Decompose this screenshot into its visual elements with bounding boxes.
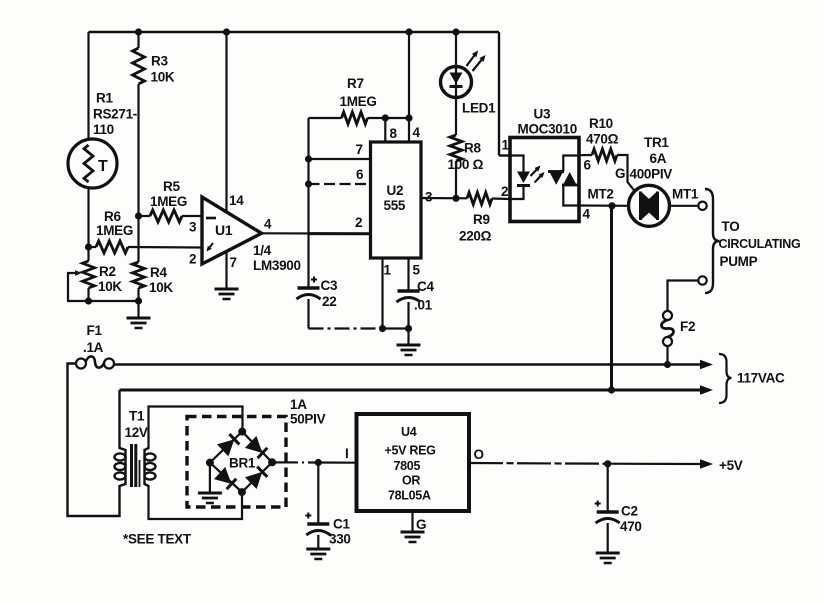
wire F1 left — [68, 364, 120, 517]
svg-text:470Ω: 470Ω — [586, 132, 619, 147]
wire top +V rail — [89, 32, 511, 156]
bridge diode bottom-right — [245, 467, 267, 489]
ground U4 — [401, 532, 425, 542]
label F1 — [83, 323, 104, 355]
wire R4 to ground — [137, 301, 139, 318]
capacitor C4 — [397, 291, 421, 329]
svg-text:117VAC: 117VAC — [737, 371, 785, 386]
label U3 pin2 — [501, 184, 508, 199]
node U2 pin7 junction — [305, 155, 312, 162]
capacitor C3 — [297, 234, 321, 329]
label TR1 — [630, 135, 673, 182]
wire U2 ground stub — [407, 329, 409, 346]
transformer T1 secondary — [145, 448, 156, 486]
svg-text:OR: OR — [402, 474, 420, 488]
U3 internal triac — [548, 156, 579, 206]
svg-text:T1: T1 — [129, 409, 145, 424]
svg-text:C2: C2 — [621, 504, 638, 519]
node top rail junction U1 pin14 — [223, 28, 230, 35]
svg-text:TR1: TR1 — [644, 135, 669, 150]
IC U2 555 — [371, 142, 422, 258]
svg-text:6: 6 — [356, 167, 364, 182]
svg-text:10K: 10K — [98, 279, 122, 294]
label LED1 — [462, 101, 496, 116]
wire R5 node down to R4 — [137, 216, 139, 262]
fuse F2 — [662, 311, 674, 365]
bridge diode top-right — [245, 436, 267, 458]
wire U3 pin6 to R10 — [579, 154, 592, 156]
svg-text:110: 110 — [93, 122, 114, 137]
wire U4 ground stub — [411, 511, 413, 532]
node R2 bottom — [85, 297, 92, 304]
resistor R4 — [133, 262, 145, 288]
label U1 pin2 — [189, 252, 196, 267]
label R7 — [340, 76, 377, 109]
terminal pump bottom — [698, 276, 706, 284]
node R7 pin4 junction — [405, 114, 412, 121]
wire MT2 drop — [610, 206, 613, 390]
label U2 pin3 — [425, 190, 433, 205]
wire BR1 output — [272, 461, 356, 464]
label U2 pin1 — [384, 263, 392, 278]
svg-text:R2: R2 — [99, 264, 116, 279]
node BR1 right — [268, 458, 276, 466]
svg-text:50PIV: 50PIV — [290, 412, 326, 427]
label C1 — [329, 517, 351, 547]
transformer T1 core — [132, 444, 140, 487]
node U2 pin1 bottom — [379, 325, 386, 332]
U3 internal LED — [510, 156, 530, 200]
ground U1 pin7 — [215, 289, 239, 299]
svg-text:MT1: MT1 — [672, 187, 699, 202]
thermistor R1 — [68, 139, 117, 188]
resistor R2 potentiometer — [69, 261, 95, 288]
wire U2 pin7 — [309, 158, 371, 160]
svg-text:4: 4 — [583, 207, 591, 222]
svg-text:U1: U1 — [215, 222, 233, 238]
wire R1 bottom — [87, 188, 89, 247]
label R1 — [93, 91, 137, 138]
svg-text:4: 4 — [413, 125, 421, 140]
label R9 — [459, 212, 492, 244]
node top rail junction LED1 — [452, 28, 459, 35]
resistor R6 — [96, 241, 128, 253]
label U4 pin I — [345, 446, 348, 461]
wire U1 pin7 — [225, 251, 227, 289]
svg-text:7: 7 — [356, 142, 363, 157]
capacitor C2 — [595, 464, 620, 553]
svg-text:1A: 1A — [290, 397, 307, 412]
ground under R4 — [127, 318, 151, 328]
svg-text:1/4: 1/4 — [253, 243, 272, 258]
node MT2 rail junction — [608, 386, 615, 393]
wire R2 top stub — [87, 247, 89, 261]
label U3 pin4 — [583, 207, 591, 222]
wire R4 bottom — [137, 288, 139, 301]
svg-text:7805: 7805 — [394, 459, 421, 473]
resistor R10 — [592, 149, 617, 161]
ground C2 — [596, 553, 620, 563]
transformer T1 primary — [115, 448, 126, 486]
label T1 — [125, 409, 148, 441]
node R5 junction — [135, 212, 142, 219]
dashed box BR1 — [187, 417, 286, 508]
wire U1 output bold segment — [309, 232, 371, 235]
label U1 1/4 LM3900 — [253, 243, 301, 273]
svg-text:R10: R10 — [589, 116, 613, 131]
svg-text:U3: U3 — [534, 107, 551, 122]
wire U4 output — [469, 463, 701, 464]
resistor R7 — [309, 112, 410, 124]
wire 117VAC rail 2 — [120, 389, 702, 392]
wire U2 pin6 dashed — [309, 183, 371, 185]
wire U2 pin1 drop — [381, 258, 383, 329]
node R8 pin3 junction — [452, 195, 459, 202]
svg-text:+5V: +5V — [719, 458, 743, 473]
wire U1 output — [262, 232, 371, 235]
svg-text:6A: 6A — [650, 151, 667, 166]
wire LED1 top — [455, 32, 457, 67]
label U2 pin7 — [356, 142, 363, 157]
resistor R5 — [150, 210, 182, 222]
wire R8 bottom — [455, 161, 457, 198]
svg-text:TO: TO — [722, 219, 740, 234]
triac TR1 — [629, 185, 670, 226]
svg-text:LM3900: LM3900 — [253, 258, 301, 273]
label U1 pin4 — [264, 217, 272, 232]
label U1 pin7 — [230, 255, 237, 270]
svg-text:F2: F2 — [680, 319, 695, 334]
svg-text:R7: R7 — [347, 76, 364, 91]
wire U2 pin5 drop — [407, 258, 409, 291]
label F2 — [680, 319, 695, 334]
resistor R9 — [467, 192, 492, 204]
svg-text:2: 2 — [355, 215, 362, 230]
capacitor C1 — [305, 463, 330, 550]
label R3 — [151, 54, 175, 85]
wire secondary top — [149, 407, 243, 450]
label 1A 50PIV — [290, 397, 326, 427]
node top rail junction U2 pin4 — [405, 28, 412, 35]
resistor R8 — [450, 135, 462, 161]
ground U2 — [397, 345, 421, 355]
wire U3 pin4 to MT2 — [579, 204, 629, 207]
node U2 pin6 junction — [305, 180, 312, 187]
label U2 pin8 — [390, 126, 398, 141]
svg-text:10K: 10K — [149, 280, 173, 295]
bridge diode bottom-left — [214, 467, 236, 489]
svg-text:R5: R5 — [163, 179, 180, 194]
label R6 — [96, 209, 133, 238]
svg-text:3: 3 — [189, 220, 197, 235]
svg-text:220Ω: 220Ω — [459, 229, 492, 244]
label U3 pin6 — [584, 158, 592, 173]
ground BR1 — [198, 493, 222, 503]
bridge BR1 frame — [210, 432, 272, 493]
svg-text:T: T — [98, 158, 108, 175]
svg-text:C4: C4 — [417, 279, 434, 294]
svg-text:78L05A: 78L05A — [388, 489, 431, 503]
U3 emission arrows — [531, 166, 545, 183]
node R7 pin8 junction — [382, 114, 389, 121]
label 117VAC — [737, 371, 785, 386]
svg-text:330: 330 — [329, 532, 351, 547]
arrow 117VAC rail 2 — [700, 385, 713, 395]
LED LED1 — [441, 51, 486, 98]
brace circulating pump — [705, 189, 720, 293]
wire R10 to gate — [617, 155, 635, 192]
svg-text:I: I — [345, 446, 348, 461]
wire secondary bottom — [149, 485, 243, 519]
label U4 pin O — [474, 447, 484, 462]
svg-text:O: O — [474, 447, 484, 462]
label BR1 — [229, 456, 256, 471]
optocoupler U3 MOC3010 box — [510, 138, 579, 222]
svg-text:U2: U2 — [387, 183, 404, 198]
svg-text:7: 7 — [230, 255, 237, 270]
svg-text:F1: F1 — [87, 323, 103, 338]
svg-text:1MEG: 1MEG — [96, 223, 133, 238]
label U3 pin1 — [502, 138, 510, 153]
label TR1 gate G — [615, 166, 625, 181]
wire R5 to U1 pin3 — [182, 215, 202, 217]
bridge diode top-left — [217, 434, 239, 456]
wire BR1 ground stub — [209, 463, 211, 493]
svg-text:1: 1 — [502, 138, 510, 153]
svg-text:LED1: LED1 — [462, 101, 496, 116]
IC U4 regulator — [357, 414, 470, 511]
wire U2 pin3 — [421, 197, 467, 200]
svg-text:R6: R6 — [104, 209, 121, 224]
wire R2 wiper loop — [68, 273, 89, 301]
label R5 — [150, 179, 187, 209]
svg-text:14: 14 — [229, 193, 244, 208]
svg-text:G: G — [615, 166, 625, 181]
svg-text:1MEG: 1MEG — [150, 194, 187, 209]
label U2 pin5 — [413, 263, 421, 278]
svg-text:MOC3010: MOC3010 — [518, 122, 577, 137]
ground C1 — [306, 549, 330, 559]
label MT2 — [588, 187, 614, 202]
wire R1 branch top — [87, 32, 89, 139]
svg-text:555: 555 — [384, 198, 406, 213]
node C2 junction — [604, 460, 611, 467]
svg-text:10K: 10K — [151, 70, 175, 85]
svg-text:22: 22 — [322, 294, 336, 309]
wire U2 pin4 drop — [408, 32, 410, 142]
svg-text:470: 470 — [620, 519, 642, 534]
svg-text:5: 5 — [413, 263, 421, 278]
resistor R3 — [133, 48, 145, 84]
fuse F1 — [76, 356, 114, 368]
svg-text:U4: U4 — [401, 425, 417, 439]
label R10 — [586, 116, 619, 147]
svg-text:MT2: MT2 — [588, 187, 614, 202]
svg-text:+5V REG: +5V REG — [385, 444, 436, 458]
label R4 — [149, 265, 173, 295]
label C2 — [620, 504, 642, 535]
terminal pump top — [698, 202, 706, 210]
label U4 pin G — [416, 517, 426, 532]
svg-text:BR1: BR1 — [229, 456, 256, 471]
svg-text:R1: R1 — [96, 91, 113, 106]
label U3 — [518, 107, 577, 137]
svg-text:G: G — [416, 517, 426, 532]
label U2 pin4 top — [413, 125, 421, 140]
label U1 pin3 — [189, 220, 197, 235]
svg-text:R9: R9 — [473, 212, 490, 227]
wire R2 bottom stub — [87, 288, 89, 301]
label R2 — [98, 264, 122, 294]
svg-text:2: 2 — [189, 252, 196, 267]
svg-text:6: 6 — [584, 158, 592, 173]
wire R2 bottom to R4 bottom — [89, 300, 139, 302]
node BR1 top — [238, 428, 246, 436]
label U1 pin14 — [229, 193, 244, 208]
label U2 pin2 — [355, 215, 362, 230]
node BR1 left — [206, 459, 214, 467]
wire R5 left stub — [139, 215, 151, 217]
op-amp U1 — [202, 197, 262, 264]
svg-text:400PIV: 400PIV — [630, 167, 673, 182]
wire R9 to U3 pin2 — [492, 197, 510, 200]
label SEE TEXT — [123, 532, 192, 547]
node F2 rail junction — [664, 361, 671, 368]
label C3 — [321, 278, 338, 309]
svg-text:C3: C3 — [321, 278, 338, 293]
svg-text:.01: .01 — [414, 298, 433, 313]
svg-text:PUMP: PUMP — [720, 254, 758, 269]
svg-text:1MEG: 1MEG — [340, 94, 377, 109]
label MT1 — [672, 187, 699, 202]
svg-text:RS271-: RS271- — [93, 107, 137, 122]
node U2 pin5 bottom — [405, 325, 412, 332]
svg-text:.1A: .1A — [83, 340, 104, 355]
wire rail2 to primary — [118, 390, 120, 449]
svg-text:8: 8 — [390, 126, 398, 141]
wire R3 top — [137, 32, 139, 48]
svg-text:CIRCULATING: CIRCULATING — [719, 237, 801, 251]
svg-text:R4: R4 — [150, 265, 167, 280]
svg-text:4: 4 — [264, 217, 272, 232]
wire U2 bottom — [383, 327, 409, 329]
svg-text:1: 1 — [384, 263, 392, 278]
label R8 — [448, 141, 484, 173]
node C1 junction — [315, 459, 322, 466]
wire LED1 to R8 — [455, 97, 457, 135]
wire R3 bottom to R5 node — [137, 84, 139, 216]
wire U1 pin14 — [225, 32, 227, 212]
node top rail junction R3 — [135, 28, 142, 35]
node BR1 bottom — [238, 488, 246, 496]
wire TR1 MT1 — [670, 205, 699, 207]
arrow +5V — [700, 459, 713, 469]
label TO CIRCULATING PUMP — [719, 219, 801, 269]
svg-text:2: 2 — [501, 184, 508, 199]
wire R6 left stub — [89, 246, 97, 248]
label U2 pin6 — [356, 167, 364, 182]
node MT2 junction — [608, 202, 615, 209]
svg-text:R3: R3 — [151, 54, 168, 69]
node R4 bottom — [135, 297, 142, 304]
wire pump terminal 2 — [668, 281, 699, 312]
wire U2 pin8 drop — [384, 118, 386, 142]
svg-text:*SEE TEXT: *SEE TEXT — [123, 532, 192, 547]
svg-text:100 Ω: 100 Ω — [448, 157, 484, 172]
brace 117VAC — [719, 354, 732, 403]
svg-text:R8: R8 — [464, 141, 481, 156]
svg-text:12V: 12V — [125, 425, 148, 440]
arrow 117VAC rail 1 — [700, 360, 713, 370]
label +5V — [719, 458, 743, 473]
label C4 — [414, 279, 434, 313]
wire R7 left column — [307, 118, 309, 234]
node R6 junction — [85, 243, 92, 250]
wire U2 bottom dash-dot — [309, 327, 383, 329]
wire 117VAC rail 1 — [110, 363, 701, 366]
svg-text:C1: C1 — [333, 517, 350, 532]
wire R6 to U1 pin2 — [128, 246, 202, 249]
